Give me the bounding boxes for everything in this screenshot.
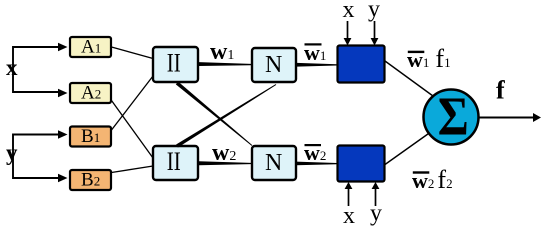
svg-text:y: y — [368, 0, 380, 23]
label wbar2 overbar — [305, 144, 322, 146]
wire B1 to P1 (crossing) — [112, 76, 154, 130]
membership box B1 — [70, 126, 111, 147]
rule box F1 (blue) — [338, 46, 385, 83]
wire w1 P1 to N1 (tapered) — [199, 62, 251, 66]
wire x arrow to A1 — [58, 43, 68, 51]
wire A1 to P1 — [112, 47, 154, 59]
label wbar1 overbar — [305, 43, 322, 45]
svg-text:x: x — [343, 0, 355, 23]
svg-text:A2: A2 — [81, 83, 101, 104]
svg-text:Σ: Σ — [438, 86, 469, 147]
product node P2 — [153, 146, 198, 180]
svg-text:A1: A1 — [81, 37, 101, 58]
svg-text:B1: B1 — [81, 126, 100, 147]
wire y arrow into F2 bottom — [375, 188, 377, 206]
product node P1 — [153, 47, 198, 82]
wire output arrow — [479, 117, 534, 119]
wire y arrow to B1 — [58, 130, 68, 138]
wire x bracket — [13, 47, 60, 92]
svg-text:II: II — [167, 49, 181, 78]
label wbar2 f2 overbar — [413, 171, 430, 173]
svg-text:N: N — [265, 52, 282, 78]
svg-text:x: x — [343, 203, 355, 229]
wire y arrow to B2 — [58, 174, 68, 182]
sum node circle — [424, 90, 479, 145]
wire F2 to sum — [385, 133, 430, 165]
wire y arrow into F1 top — [374, 21, 376, 39]
wire x arrow into F1 top — [347, 21, 349, 39]
wire wbar2 N2 to F2 (tapered) — [296, 162, 337, 166]
svg-text:y: y — [6, 140, 18, 165]
wire A2 to P2 (crossing) — [112, 101, 154, 159]
wire F1 to sum — [385, 61, 433, 96]
wire x arrow to A2 — [58, 89, 68, 97]
svg-text:f: f — [496, 76, 505, 105]
wire wbar1 N1 to F1 (tapered) — [297, 63, 337, 67]
membership box A2 — [70, 83, 111, 104]
wire P1 to N2 (tapered diagonal) — [176, 82, 253, 146]
svg-text:N: N — [265, 150, 282, 176]
wire x arrow into F2 bottom — [348, 188, 350, 206]
svg-text:x: x — [6, 55, 18, 80]
label wbar1 f1 overbar — [408, 51, 425, 53]
wire w2 P2 to N2 (tapered) — [199, 161, 251, 165]
norm node N1 — [252, 48, 296, 82]
wire y bracket — [13, 135, 60, 179]
membership box A1 — [70, 37, 111, 58]
wire B2 to P2 — [112, 166, 154, 173]
norm node N2 — [252, 146, 296, 180]
svg-text:II: II — [167, 147, 181, 176]
svg-text:B2: B2 — [81, 170, 100, 191]
rule box F2 (blue) — [338, 146, 385, 182]
membership box B2 — [70, 170, 111, 191]
wire P2 to N1 (tapered diagonal) — [176, 84, 276, 147]
